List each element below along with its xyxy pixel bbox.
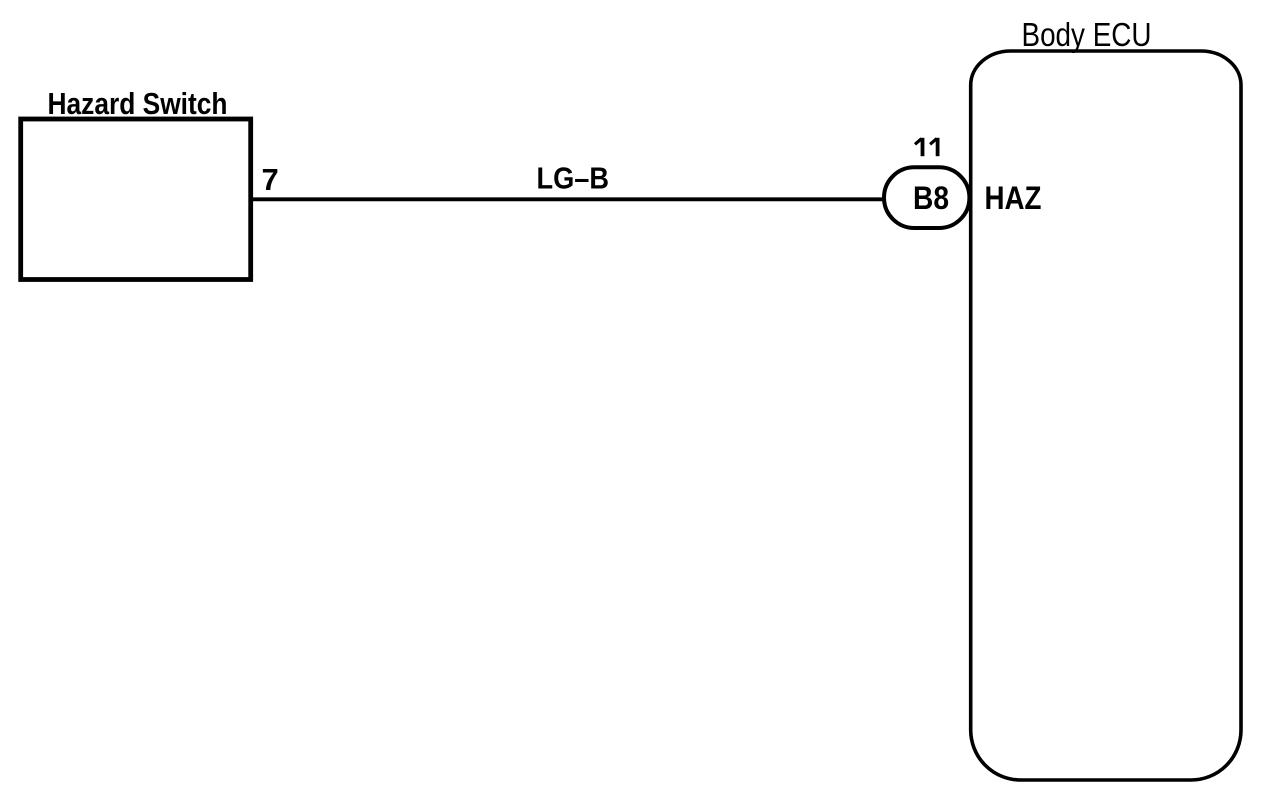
svg-text:7: 7: [262, 162, 279, 197]
wire LG-B from Hazard Switch pin 7 to Body ECU terminal B8: [251, 197, 884, 201]
svg-text:Hazard Switch: Hazard Switch: [48, 86, 228, 121]
connector terminal oval B8: [884, 167, 969, 228]
svg-text:LG–B: LG–B: [537, 161, 610, 196]
svg-text:Body ECU: Body ECU: [1022, 16, 1152, 53]
pin 11: [915, 138, 938, 156]
component Body ECU (rounded box): [971, 51, 1241, 780]
svg-text:HAZ: HAZ: [985, 180, 1042, 216]
component Hazard Switch (box): [21, 119, 251, 280]
svg-text:B8: B8: [913, 180, 949, 216]
